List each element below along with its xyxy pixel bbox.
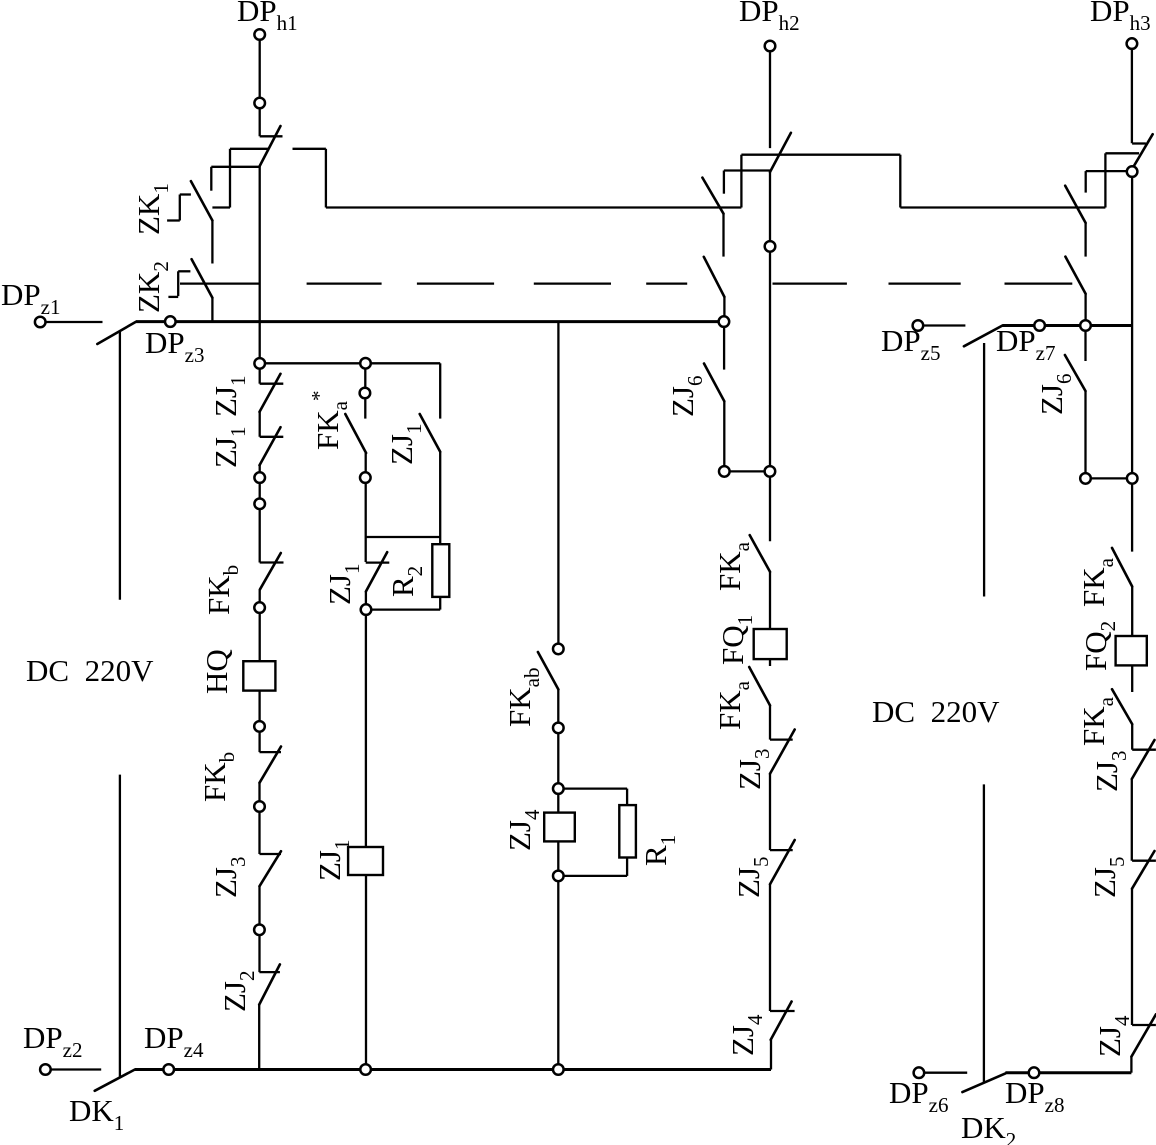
- wire R1 branch down: [626, 789, 628, 806]
- terminal circle DP_h3: [1127, 38, 1138, 49]
- terminal circle below ZJ6: [719, 466, 730, 477]
- wire step up left: [740, 155, 742, 208]
- wire R1 branch top: [558, 787, 627, 789]
- contact ZJ1-b blade: [260, 427, 281, 465]
- terminal circle above ZJ3: [254, 801, 265, 812]
- node DP_z4 label: [144, 1020, 204, 1062]
- wire blade-bottom tail vertical: [210, 167, 212, 191]
- coil HQ: [243, 661, 275, 690]
- bus right section: [1003, 324, 1133, 327]
- terminal circle above ZJ1 coil: [361, 604, 372, 615]
- terminal circle below ZJ4 coil: [553, 871, 564, 882]
- wire FK_a lower to ZJ3 right: [1131, 724, 1133, 750]
- switch DP3 aux blade upper: [1065, 186, 1085, 223]
- node FQ1 label: [715, 615, 757, 665]
- switch DK1 blade: [95, 1070, 135, 1091]
- node ZJ6 label left: [665, 376, 707, 418]
- breaker ZK1 blade: [191, 181, 213, 220]
- svg-text:HQ: HQ: [199, 649, 234, 694]
- terminal circle DP_z8: [1029, 1067, 1040, 1078]
- terminal circle DP_z6: [914, 1067, 925, 1078]
- node ZJ1 label right branch: [384, 424, 426, 466]
- wire DP_z6 stub: [925, 1072, 968, 1074]
- node DP_z3 label: [145, 325, 204, 367]
- coil FQ2: [1116, 636, 1147, 665]
- contact ZJ6 right blade: [1065, 355, 1086, 391]
- wire FK_b to HQ: [259, 589, 261, 661]
- wire DP3 aux middle: [1084, 223, 1086, 257]
- node HQ label: [199, 649, 234, 694]
- wire ZJ6 right to circle: [1084, 391, 1086, 478]
- wire ZJ6 to circle: [723, 401, 725, 471]
- node R2 label: [385, 566, 427, 597]
- contact ZJ1 labels column1: [208, 376, 250, 469]
- contact ZJ5 nc tick: [770, 849, 793, 851]
- bus DP_z3 horizontal: [136, 320, 724, 323]
- switch DP_z1 blade: [97, 322, 136, 344]
- wire DP_h1 top: [259, 40, 261, 136]
- coil ZJ1: [348, 847, 383, 875]
- wire between ZJ1 contacts: [259, 412, 261, 437]
- wire step right upper: [293, 148, 326, 150]
- junction circle DP_h2 bus: [719, 316, 730, 327]
- switch DP2 aux blade upper: [702, 178, 723, 214]
- wire step down right: [899, 155, 901, 208]
- wire DP_h3 down: [1131, 49, 1133, 143]
- wire FQ2 to FK_a lower: [1131, 665, 1133, 692]
- terminal circle pair lower: [254, 499, 265, 510]
- node ZJ6 label right: [1034, 374, 1076, 416]
- wire ZJ3 to ZJ5 right: [1131, 779, 1133, 861]
- contact FK_ab blade: [538, 652, 559, 690]
- contact ZJ5 right tick: [1132, 860, 1156, 862]
- node ZJ5 label right: [1087, 857, 1129, 899]
- wire left rail lower: [119, 775, 121, 1078]
- wire step left upper: [230, 148, 269, 150]
- wire DP3 aux to bus: [1084, 294, 1086, 326]
- wire DP3 tail horizontal: [1086, 170, 1127, 172]
- breaker ZK2 blade: [192, 259, 213, 298]
- node FK_b label lower: [197, 752, 239, 802]
- switch DP_z5 blade: [964, 326, 1003, 347]
- resistor R2: [432, 544, 449, 597]
- wire step up left DP_h3: [1104, 153, 1106, 207]
- node ZK2 label: [131, 261, 173, 313]
- wire ZJ1nc to coil: [365, 592, 367, 848]
- terminal circle DP_z4: [163, 1064, 174, 1075]
- node ZJ4 coil label: [502, 809, 544, 851]
- wire step right vertical: [325, 149, 327, 208]
- contact ZJ2 tick: [259, 971, 280, 973]
- wire DP2 to FK_a: [769, 172, 771, 541]
- contact ZJ3 right tick: [1132, 749, 1156, 751]
- wire ZJ6 circle to DP_h3 line: [1086, 477, 1133, 479]
- contact FK_b-b tick: [260, 751, 282, 753]
- wire ZJ3 to ZJ2: [258, 886, 260, 972]
- wire ZK2 level line solid: [180, 282, 260, 284]
- wire bus corner up right: [770, 1040, 772, 1070]
- contact ZJ4 right blade: [1131, 1014, 1156, 1056]
- node A terminal circle: [254, 358, 265, 369]
- wire bus to ZJ6 right: [1084, 331, 1086, 361]
- node DP_z1 label: [1, 277, 60, 319]
- node ZJ5 label DP_h2: [731, 857, 773, 899]
- wire HQ to FK_b lower: [258, 691, 260, 753]
- wire FK_a to FQ1: [769, 572, 771, 629]
- wire FK_b-b to ZJ3: [258, 783, 260, 854]
- contact ZJ1nc tick: [366, 561, 390, 563]
- node FK_a label upper right: [1076, 557, 1118, 607]
- wire blade-bottom tail horizontal: [211, 166, 259, 168]
- contact ZJ1-b tick: [260, 436, 284, 438]
- wire FK_a lower to ZJ3: [769, 705, 771, 739]
- wire ZJ1 coil to bottom bus: [365, 875, 367, 1070]
- bus bottom left: [135, 1068, 771, 1071]
- wire ZJ4 to bottom bus right: [1130, 1057, 1132, 1073]
- node DP_h1 label: [237, 0, 298, 35]
- junction circle FK_ab bus: [553, 1064, 564, 1075]
- node DP_h3 label: [1090, 0, 1151, 35]
- node DP_h2 label: [739, 0, 800, 35]
- node DP_z8 label: [1005, 1075, 1064, 1117]
- node DK2 label: [961, 1110, 1016, 1145]
- wire ZJ5 to ZJ4: [769, 884, 771, 1011]
- node DP_z7 label: [996, 323, 1055, 365]
- node ZJ4 label right: [1092, 1015, 1134, 1057]
- contact ZJ1-a blade: [260, 374, 281, 412]
- contact ZJ2 blade: [259, 964, 280, 1004]
- wire ZK2 to bus: [211, 298, 213, 322]
- terminal circle above ZJ2: [254, 925, 265, 936]
- wire left rail upper: [119, 331, 121, 600]
- contact ZJ3 blade: [260, 851, 282, 886]
- terminal circle DP_z3: [165, 316, 176, 327]
- junction circle DP3 aux bus: [1080, 320, 1091, 331]
- node DP_z6 label: [889, 1075, 948, 1117]
- wire ZK1 to step: [212, 206, 230, 208]
- wire DP2 tail horizontal: [724, 169, 770, 171]
- contact ZJ4 right tick: [1132, 1024, 1156, 1026]
- contact ZJ5 nc blade: [770, 840, 795, 884]
- contact ZJ3 right blade: [1132, 740, 1155, 779]
- terminal circle column2 top: [360, 358, 371, 369]
- wire interlock DP_h2 to DP_h3: [900, 206, 1105, 208]
- node DP_z5 label: [881, 323, 940, 365]
- wire step left vertical: [229, 149, 231, 208]
- terminal circle DP_z2: [40, 1064, 51, 1075]
- node ZJ4 label DP_h2: [725, 1014, 767, 1056]
- contact ZJ1nc blade: [366, 552, 387, 591]
- wire R1 to ZJ4 circle: [558, 875, 627, 877]
- terminal circle DP_z1: [35, 317, 46, 328]
- node ZJ2 label: [217, 971, 259, 1013]
- terminal circle above ZJ4 coil: [553, 783, 564, 794]
- resistor R1: [619, 805, 636, 857]
- node ZJ1 label column2: [322, 564, 364, 606]
- wire ZJ2 to bottom bus: [258, 1005, 260, 1070]
- terminal circle DP_h2: [765, 41, 776, 52]
- wire bus to FK_ab: [557, 322, 559, 654]
- node FK_b label upper: [201, 565, 243, 615]
- contact FK_a lower blade: [749, 667, 770, 705]
- wire DP_h1 blade to node A: [259, 166, 261, 363]
- wire ZJ6 circle to DP_h2 line: [724, 470, 770, 472]
- contact FK_a* blade: [345, 414, 366, 453]
- wire ZJ1-b to FK_b: [259, 465, 261, 562]
- wire ZJ4 coil to bus: [557, 841, 559, 1069]
- terminal circle DP_h3 mid: [1127, 473, 1138, 484]
- wire R2 branch down: [439, 363, 441, 418]
- terminal circle pair upper: [254, 472, 265, 483]
- wire right rail upper: [983, 343, 985, 597]
- contact FK_b-a blade: [260, 553, 281, 589]
- node DC 220V label left: [26, 653, 154, 688]
- wire DP_z1 stub: [46, 321, 103, 323]
- terminal circle DP_z7: [1034, 320, 1045, 331]
- terminal circle column2 second: [360, 388, 371, 399]
- svg-text:DC 220V: DC 220V: [872, 694, 1000, 729]
- wire DP_z2 stub: [51, 1068, 101, 1070]
- wire junction horizontal: [366, 536, 440, 538]
- wire FK_a* to ZJ1nc: [365, 453, 367, 562]
- node FQ2 label: [1078, 621, 1120, 671]
- wire DP2 aux to bus: [723, 297, 725, 322]
- contact FK_b-a tick: [260, 561, 284, 563]
- wire DP3 tail vertical: [1085, 171, 1087, 193]
- wire R2 to circle E: [366, 608, 440, 610]
- dashed mechanical linkage line: [307, 282, 1073, 284]
- switch DP3 blade: [1132, 134, 1153, 169]
- wire long interlock line to DP_h2: [326, 206, 742, 208]
- contact ZJ3 nc tick: [770, 738, 793, 740]
- terminal circle DP_h1: [254, 29, 265, 40]
- wire DP2 aux middle: [722, 214, 724, 257]
- contact ZJ3 nc blade: [770, 730, 795, 774]
- terminal circle on DP_h1 line: [254, 98, 265, 109]
- node FK_a label lower left: [712, 680, 754, 730]
- terminal circle below FK_ab: [553, 723, 564, 734]
- wire ZK1 to ZK2: [211, 221, 213, 264]
- wire bus to ZJ6: [723, 327, 725, 370]
- terminal circle DP3 pivot: [1127, 166, 1138, 177]
- coil FQ1: [754, 629, 787, 659]
- contact FK_a upper blade: [750, 535, 770, 572]
- wire step top DP_h3: [1105, 152, 1139, 154]
- contact ZJ6 blade: [704, 364, 724, 402]
- wire FQ1 to FK_a lower: [769, 659, 771, 666]
- switch DP2 aux blade lower: [704, 257, 725, 297]
- node FK_a* label: [307, 391, 352, 450]
- wire ZJ5 to ZJ4 right: [1131, 889, 1133, 1025]
- terminal circle DP_z5: [913, 320, 924, 331]
- node FK_ab label: [502, 668, 544, 727]
- wire DP_h3 main down: [1131, 172, 1133, 552]
- contact ZJ4 nc blade: [771, 1002, 792, 1040]
- node ZJ3 label column1: [208, 857, 250, 899]
- wire R1 bottom: [626, 858, 628, 876]
- node ZK1 label: [131, 183, 173, 235]
- junction circle column2 bus: [360, 1064, 371, 1075]
- svg-text:DC 220V: DC 220V: [26, 653, 154, 688]
- switch DP3 aux blade lower: [1065, 257, 1085, 294]
- wire node A down: [259, 363, 261, 383]
- contact FK_a right upper blade: [1112, 548, 1132, 587]
- contact ZJ1-a tick: [260, 383, 284, 385]
- wire FK_a to FQ2: [1131, 587, 1133, 637]
- wire ZJ1 right to R2: [439, 452, 441, 545]
- node ZJ3 label right: [1089, 751, 1131, 793]
- switch DP1 blade: [260, 126, 281, 166]
- bus bottom right: [1005, 1071, 1131, 1074]
- node FK_a label lower right: [1076, 696, 1118, 746]
- terminal circle below HQ: [254, 721, 265, 732]
- node FK_a label upper left: [712, 541, 754, 591]
- terminal circle DP_h2 mid: [765, 466, 776, 477]
- node ZJ1 coil label: [312, 840, 354, 882]
- switch DP2 blade: [770, 133, 791, 172]
- wire R2 bottom: [439, 597, 441, 610]
- switch DK2 blade: [962, 1073, 1005, 1092]
- wire DP2 tail vertical: [723, 171, 725, 194]
- terminal circle above FK_ab: [553, 644, 564, 655]
- switch DP3 fixed tick: [1132, 142, 1146, 144]
- contact ZJ4 nc tick: [770, 1010, 795, 1012]
- terminal circle above HQ: [254, 602, 265, 613]
- wire node A to column2: [260, 362, 441, 364]
- wire ZJ3 to ZJ5: [769, 774, 771, 850]
- node DC 220V label right: [872, 694, 1000, 729]
- node DK1 label: [69, 1093, 124, 1135]
- contact FK_b-b blade: [260, 747, 282, 783]
- contact FK_a right lower blade: [1112, 689, 1132, 724]
- node DP_z2 label: [23, 1020, 82, 1062]
- contact ZJ1 right blade: [420, 414, 441, 452]
- switch DP1 fixed tick: [260, 135, 283, 137]
- terminal circle DP_h2 upper: [765, 241, 776, 252]
- wire column2 to FK_a* break: [364, 363, 366, 418]
- node R1 label: [638, 835, 680, 866]
- breaker ZK2 bracket: [168, 271, 190, 297]
- wire DP_h2 down: [769, 52, 771, 149]
- contact ZJ3 tick: [260, 853, 282, 855]
- wire DP_z5 stub: [924, 324, 966, 326]
- terminal circle below FK_a*: [360, 472, 371, 483]
- wire FK_ab to ZJ4 coil: [557, 690, 559, 813]
- terminal circle below ZJ6 right: [1080, 473, 1091, 484]
- coil ZJ4: [544, 813, 575, 842]
- wire right rail lower: [983, 784, 985, 1082]
- node ZJ3 label DP_h2: [732, 749, 774, 791]
- breaker ZK1 bracket: [167, 195, 191, 221]
- contact ZJ5 right blade: [1132, 851, 1155, 889]
- wire step top DP_h2: [741, 154, 900, 156]
